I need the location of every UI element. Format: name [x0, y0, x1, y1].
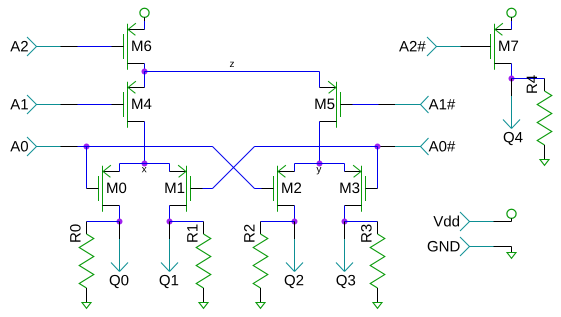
junction on A0 net: [84, 144, 90, 150]
wire A0# down to M3 gate: [377, 147, 379, 189]
wire node x to M1 source: [145, 164, 170, 172]
input pin A0: [10, 137, 77, 156]
wire to M2 gate: [255, 188, 262, 190]
resistor R0: [70, 222, 94, 303]
wire node y to M2 source: [295, 164, 320, 172]
wire M5 drain down to node y: [319, 122, 321, 164]
wire A1 net to M4 gate: [78, 104, 112, 106]
output pin Q0: [110, 222, 129, 289]
wire node Q4 to R4: [512, 78, 545, 80]
wire M0 drain down to output node: [119, 206, 121, 222]
junction node y: [317, 161, 323, 167]
transistor M0: [87, 165, 127, 212]
ground under R2: [256, 303, 265, 309]
wire A0# diagonal down to M1 gate: [213, 147, 255, 189]
resistor R1: [187, 222, 211, 303]
wire A0 down to M0 gate: [86, 147, 88, 189]
ground under R4: [540, 160, 549, 166]
supply pin circle above M7: [507, 8, 516, 21]
wire supply to M7 source: [511, 21, 513, 30]
junction on A0# net: [375, 144, 381, 150]
net label x: [142, 167, 147, 172]
ground under R1: [199, 303, 208, 309]
wire Vdd to supply: [494, 221, 512, 223]
input pin A2#: [399, 37, 477, 56]
transistor M5: [315, 81, 352, 128]
wire A0# net horizontal: [255, 146, 378, 148]
resistor R4: [527, 75, 552, 159]
net label y: [316, 167, 321, 174]
output pin Q2: [285, 222, 304, 289]
wire A0 diagonal down to M2 gate: [213, 147, 255, 189]
wire node Q0 to R0: [87, 221, 120, 223]
wire M5 gate to A1#: [353, 104, 379, 106]
transistor M7: [479, 23, 519, 70]
junction node Q2: [292, 219, 298, 225]
supply symbol Vdd: [507, 209, 516, 221]
supply pin circle above M6: [140, 8, 149, 21]
transistor M1: [165, 165, 202, 212]
net label z: [230, 62, 234, 67]
ground under R3: [373, 303, 382, 309]
wire M3 drain down to output node: [344, 206, 346, 222]
wire node y to M3 source: [320, 164, 345, 172]
ground under R0: [82, 303, 91, 309]
transistor M6: [112, 23, 152, 70]
wire z net down to M5 source: [319, 72, 321, 88]
junction node x: [142, 161, 148, 167]
junction node Q3: [342, 219, 348, 225]
wire M7 drain down to node Q4: [511, 64, 513, 79]
output pin A0#: [379, 138, 456, 155]
transistor M2: [262, 165, 302, 212]
wire M1 drain down to output node: [169, 206, 171, 222]
input pin A1: [10, 95, 77, 114]
wire M6 drain down to node z: [144, 64, 146, 72]
junction node Q0: [117, 219, 123, 225]
resistor R2: [244, 222, 268, 303]
wire A2 net to M6 gate: [78, 46, 112, 48]
wire to M1 gate: [203, 188, 213, 190]
wire M4 drain down to node x: [144, 122, 146, 164]
pin GND: [428, 237, 511, 256]
pin Vdd: [433, 212, 510, 231]
output pin Q3: [336, 222, 355, 289]
output pin A1#: [379, 96, 456, 113]
transistor M3: [340, 165, 377, 212]
output pin Q1: [160, 222, 179, 289]
transistor M4: [112, 81, 152, 128]
junction node Q4: [509, 76, 515, 82]
wire supply to M6 source: [144, 21, 146, 30]
resistor R3: [361, 222, 385, 303]
wire M2 drain down to output node: [294, 206, 296, 222]
wire node z down to M4 source: [144, 72, 146, 88]
wire node Q3 to R3: [345, 221, 378, 223]
wire z net horizontal: [145, 71, 320, 73]
wire node Q2 to R2: [261, 221, 295, 223]
ground symbol GND: [507, 253, 516, 259]
wire A2# to M7 gate: [478, 46, 479, 48]
wire node Q1 to R1: [170, 221, 204, 223]
junction node z: [142, 69, 148, 75]
junction node Q1: [167, 219, 173, 225]
wire GND to ground: [494, 247, 512, 253]
wire A0 net horizontal: [78, 146, 213, 148]
output pin Q4: [503, 79, 523, 146]
input pin A2: [10, 37, 77, 56]
wire node x to M0 source: [120, 164, 145, 172]
